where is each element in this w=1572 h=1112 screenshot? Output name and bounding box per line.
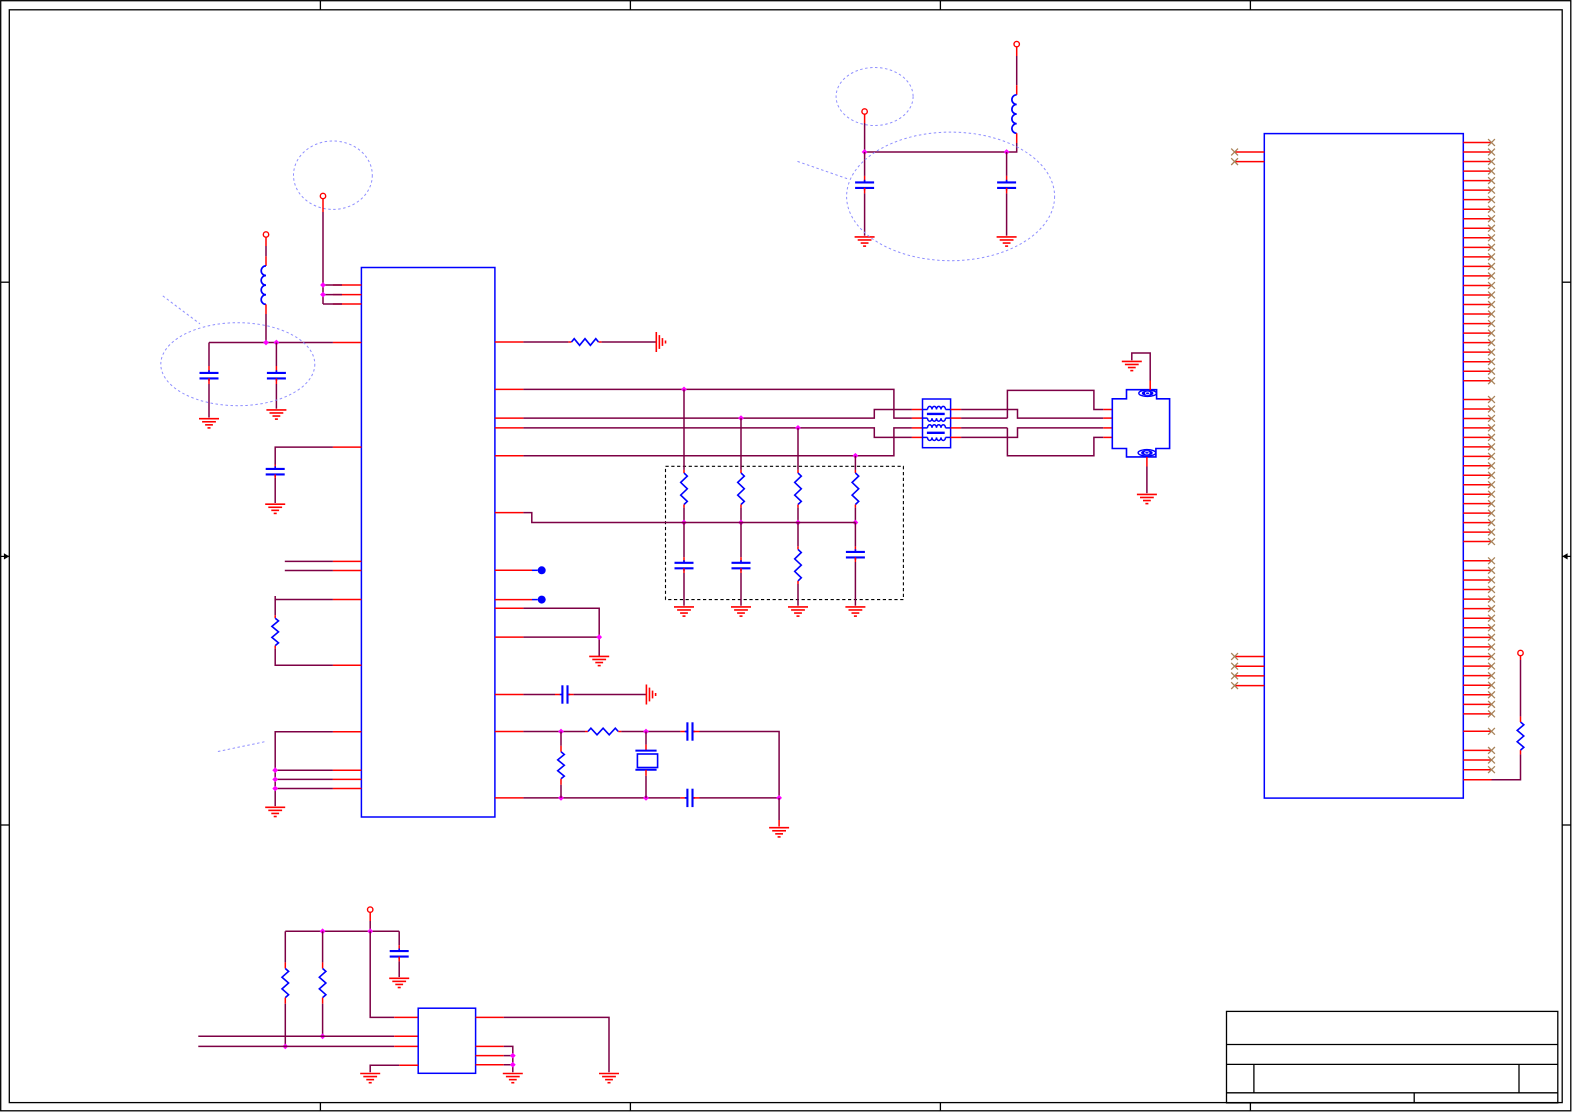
IC U1 right pins [495, 342, 532, 798]
capacitor C3 [855, 180, 874, 191]
wire rail to C12 [398, 931, 400, 950]
connector J2 right pins [1463, 143, 1491, 770]
wire R7 to XTAL1 node [618, 731, 686, 733]
connector J2 detect pin [1463, 779, 1491, 781]
USB J1 shield contact top [1139, 390, 1157, 396]
wire line B to U2 [198, 1045, 418, 1047]
junction R10 line B [282, 1044, 288, 1050]
crystal Y1 [635, 751, 657, 770]
wire rail down to C3 [864, 152, 866, 181]
resistor R2 [681, 473, 688, 505]
wire rail down to C1 [208, 343, 210, 372]
resistor R1 [572, 339, 599, 346]
wire U1 to R9 loop [275, 596, 333, 618]
wire net TX2 line2 [523, 410, 922, 419]
ground branch1 [674, 607, 694, 616]
wire R11 to line A [322, 998, 324, 1037]
wire R2 to node [683, 505, 685, 523]
junction gnd pin1 [272, 767, 278, 773]
wire C2 to ground [275, 378, 277, 408]
ground U2 out [599, 1074, 619, 1083]
junction branch4 node [853, 520, 859, 526]
wire line A to U2 [198, 1035, 418, 1037]
wire J1 shield bottom to ground [1146, 457, 1148, 493]
wire feedback resistor bottom [560, 779, 562, 798]
junction branch2 node [738, 520, 744, 526]
junction U2 gnd a [510, 1053, 516, 1059]
wire branch1 vertical [683, 389, 685, 473]
wire right leg to ground [778, 798, 780, 827]
inductor L1 [261, 266, 266, 305]
junction XTAL1 Y1 [643, 729, 649, 735]
wire P2 to U1 pins [323, 199, 342, 304]
ground C8 sideways [646, 685, 655, 705]
wire U1 to C8 [523, 694, 560, 696]
no-connect marker U1 pin b [532, 596, 546, 604]
wire rail to U1 pin [209, 342, 333, 344]
IC U2 body [418, 1008, 475, 1073]
junction P5 rail [367, 928, 373, 934]
wire R4 to node [797, 505, 799, 523]
wire R1 to ground [599, 341, 657, 343]
wire node to C5 [683, 523, 685, 562]
resistor R8 [558, 752, 565, 779]
wire node to R5 [797, 523, 799, 550]
resistor R11 [319, 969, 326, 998]
border center arrow right [1562, 553, 1571, 559]
wire FB1 out4 to J1 pin3 [951, 428, 1113, 438]
capacitor C11 [266, 466, 285, 477]
wire FB1 out1 to J1 pin2 [951, 410, 1113, 419]
junction rail C2 [263, 340, 269, 346]
connector J2 body [1264, 134, 1463, 799]
wire C3 to ground [864, 188, 866, 236]
wire C10 to right leg [694, 797, 780, 799]
junction RX1 branch [795, 425, 801, 431]
USB connector J1 body [1112, 390, 1169, 457]
ground XTAL [769, 828, 789, 837]
wire P5 down [369, 912, 371, 931]
wire L1 to rail node [265, 304, 267, 342]
power terminal P6 [1518, 650, 1523, 655]
IC U1 left pins [333, 285, 362, 789]
wire P5 to U2 pin1 [370, 931, 418, 1017]
junction U2 gnd b [510, 1062, 516, 1068]
wire rail to R11 [322, 931, 324, 968]
resistor R12 [1517, 722, 1524, 750]
junction branch3 node [795, 520, 801, 526]
wire C9 to right leg [694, 732, 780, 798]
capacitor C9 [685, 722, 695, 740]
ground C11 [265, 504, 285, 513]
wire U2 right gnd pins [476, 1046, 513, 1072]
ground branch4 [845, 607, 865, 616]
wire detect pin to R12 [1492, 750, 1521, 780]
wire node to C2 [275, 343, 277, 372]
wire C6 to ground [740, 568, 742, 605]
ground U1 left [265, 807, 285, 816]
wire C11 to ground [274, 474, 276, 503]
wire U1 cap branch [275, 447, 333, 468]
wire crystal bottom [645, 770, 647, 798]
dashed highlight ellipse around terminal P3 [836, 68, 913, 126]
wire rail to R10 [284, 931, 286, 968]
wire XTAL line2 [523, 797, 686, 799]
power terminal P3 [862, 109, 867, 114]
ground C12 [389, 978, 409, 987]
wire U1 to R1 [523, 341, 571, 343]
dashed leader line to C3 C4 [798, 161, 848, 179]
dashed box around termination network [666, 466, 904, 599]
wire stub net a [285, 560, 333, 562]
power terminal P4 [1014, 41, 1019, 46]
wire U2 out pin [476, 1017, 609, 1072]
connector J2 right pin no-connect crosses [1488, 139, 1495, 773]
ground U2 left [360, 1074, 380, 1083]
junction branch1 node [681, 520, 687, 526]
wire FB1 out3 to J1 pin4 [951, 428, 1113, 456]
wire XTAL line1 [523, 731, 588, 733]
power terminal P5 [368, 907, 373, 912]
choke FB1 body [923, 399, 951, 448]
resistor R5 [795, 549, 802, 581]
wire C12 to ground [398, 957, 400, 978]
ground C2 [266, 410, 286, 419]
wire R5 to ground [797, 581, 799, 606]
wire R6 to node [854, 505, 856, 523]
junction rail C4 [1004, 149, 1010, 155]
wire crystal top [645, 732, 647, 751]
capacitor C8 [560, 685, 570, 703]
ground C1 [199, 419, 219, 428]
capacitor C12 [390, 949, 409, 960]
ground J1 top [1122, 361, 1142, 370]
junction XTAL2 Rf [558, 795, 564, 801]
wire R3 to node [740, 505, 742, 523]
resistor R6 [852, 473, 859, 505]
ground U1 step [589, 656, 609, 665]
junction ground step [596, 634, 602, 640]
border center arrow left [1, 553, 10, 559]
wire net TX1 line1 [523, 389, 922, 418]
wire branch4 vertical [854, 456, 856, 473]
junction gnd pin3 [272, 786, 278, 792]
wire node to C7 [854, 523, 856, 551]
junction gnd pin2 [272, 777, 278, 783]
junction TX1 branch [681, 387, 687, 393]
ground R1 sideways [656, 332, 665, 352]
ground branch2 [731, 607, 751, 616]
wire P3 down to rail [864, 114, 866, 152]
resistor R3 [738, 473, 745, 505]
wire node to C4 [1006, 152, 1008, 181]
connector J2 left pin no-connect crosses [1231, 149, 1238, 689]
capacitor C6 [732, 560, 751, 571]
wire U1 pins to ground step [523, 608, 599, 656]
dashed leader line to C1 C2 [163, 296, 200, 324]
capacitor C7 [846, 549, 865, 560]
ground U2 right [503, 1074, 523, 1083]
ground C4 [997, 237, 1017, 246]
no-connect marker U1 pin a [532, 566, 546, 574]
wire J1 shield top to ground [1132, 353, 1150, 390]
wire U2 gnd pin [370, 1065, 418, 1072]
power terminal P1 [263, 232, 268, 237]
capacitor C2 [267, 370, 286, 381]
wire P4 to inductor L2 [1016, 47, 1018, 95]
ground C3 [855, 237, 875, 246]
capacitor C5 [675, 560, 694, 571]
dashed highlight ellipse around C3 C4 [847, 132, 1055, 261]
IC U1 body [361, 268, 495, 818]
wire stub net b [285, 570, 333, 572]
wire net RX2 line4 [523, 428, 922, 456]
resistor R10 [282, 969, 289, 998]
wire FB1 out2 to J1 pin1 [951, 390, 1113, 418]
wire branch2 vertical [740, 418, 742, 473]
wire C4 to ground [1006, 188, 1008, 236]
junction XTAL1 Rf [558, 729, 564, 735]
capacitor C4 [997, 180, 1016, 191]
wire branch3 vertical [797, 428, 799, 473]
power terminal P2 [320, 193, 325, 198]
inductor L2 [1012, 95, 1017, 134]
junction rail C3 [862, 149, 868, 155]
wire node to C6 [740, 523, 742, 562]
choke FB1 windings [923, 406, 951, 440]
dashed highlight ellipse around C1 C2 [161, 323, 315, 406]
resistor R7 [588, 728, 618, 735]
wire L2 to rail [865, 133, 1017, 152]
wire R10 to line B [284, 998, 286, 1047]
wire C1 to ground [208, 378, 210, 417]
wire C8 to ground [568, 694, 646, 696]
capacitor C1 [200, 370, 219, 381]
dashed leader line near U1 ground pins [218, 741, 266, 751]
wire R12 to terminal P6 [1520, 656, 1522, 722]
wire C7 to ground [854, 557, 856, 605]
wire supply rail [285, 930, 399, 932]
wire net RX1 line3 [523, 428, 922, 438]
junction R11 line A [320, 1033, 326, 1039]
title block [1227, 1011, 1558, 1103]
wire feedback resistor top [560, 732, 562, 752]
junction rail R11 [320, 928, 326, 934]
junction RX2 branch [853, 453, 859, 459]
junction P2 pin1 [320, 282, 326, 288]
resistor R9 [272, 618, 279, 645]
junction XTAL2 Y1 [643, 795, 649, 801]
ground J1 bottom [1137, 494, 1157, 503]
resistor R4 [795, 473, 802, 505]
junction right leg [776, 795, 782, 801]
wire R9 to U1 [275, 646, 333, 666]
wire C5 to ground [683, 568, 685, 605]
wire U1 bias to termination nodes [523, 513, 855, 523]
junction rail C2b [274, 340, 280, 346]
junction P2 pin2 [320, 292, 326, 298]
junction TX2 branch [738, 415, 744, 421]
USB J1 shield contact bottom [1138, 450, 1156, 456]
connector J2 left pins [1235, 152, 1265, 686]
capacitor C10 [685, 789, 695, 807]
wire U1 ground pins [275, 732, 333, 806]
ground branch3 [788, 607, 808, 616]
wire P1 to inductor L1 [265, 237, 267, 266]
dashed highlight ellipse around terminal P2 [294, 141, 373, 209]
